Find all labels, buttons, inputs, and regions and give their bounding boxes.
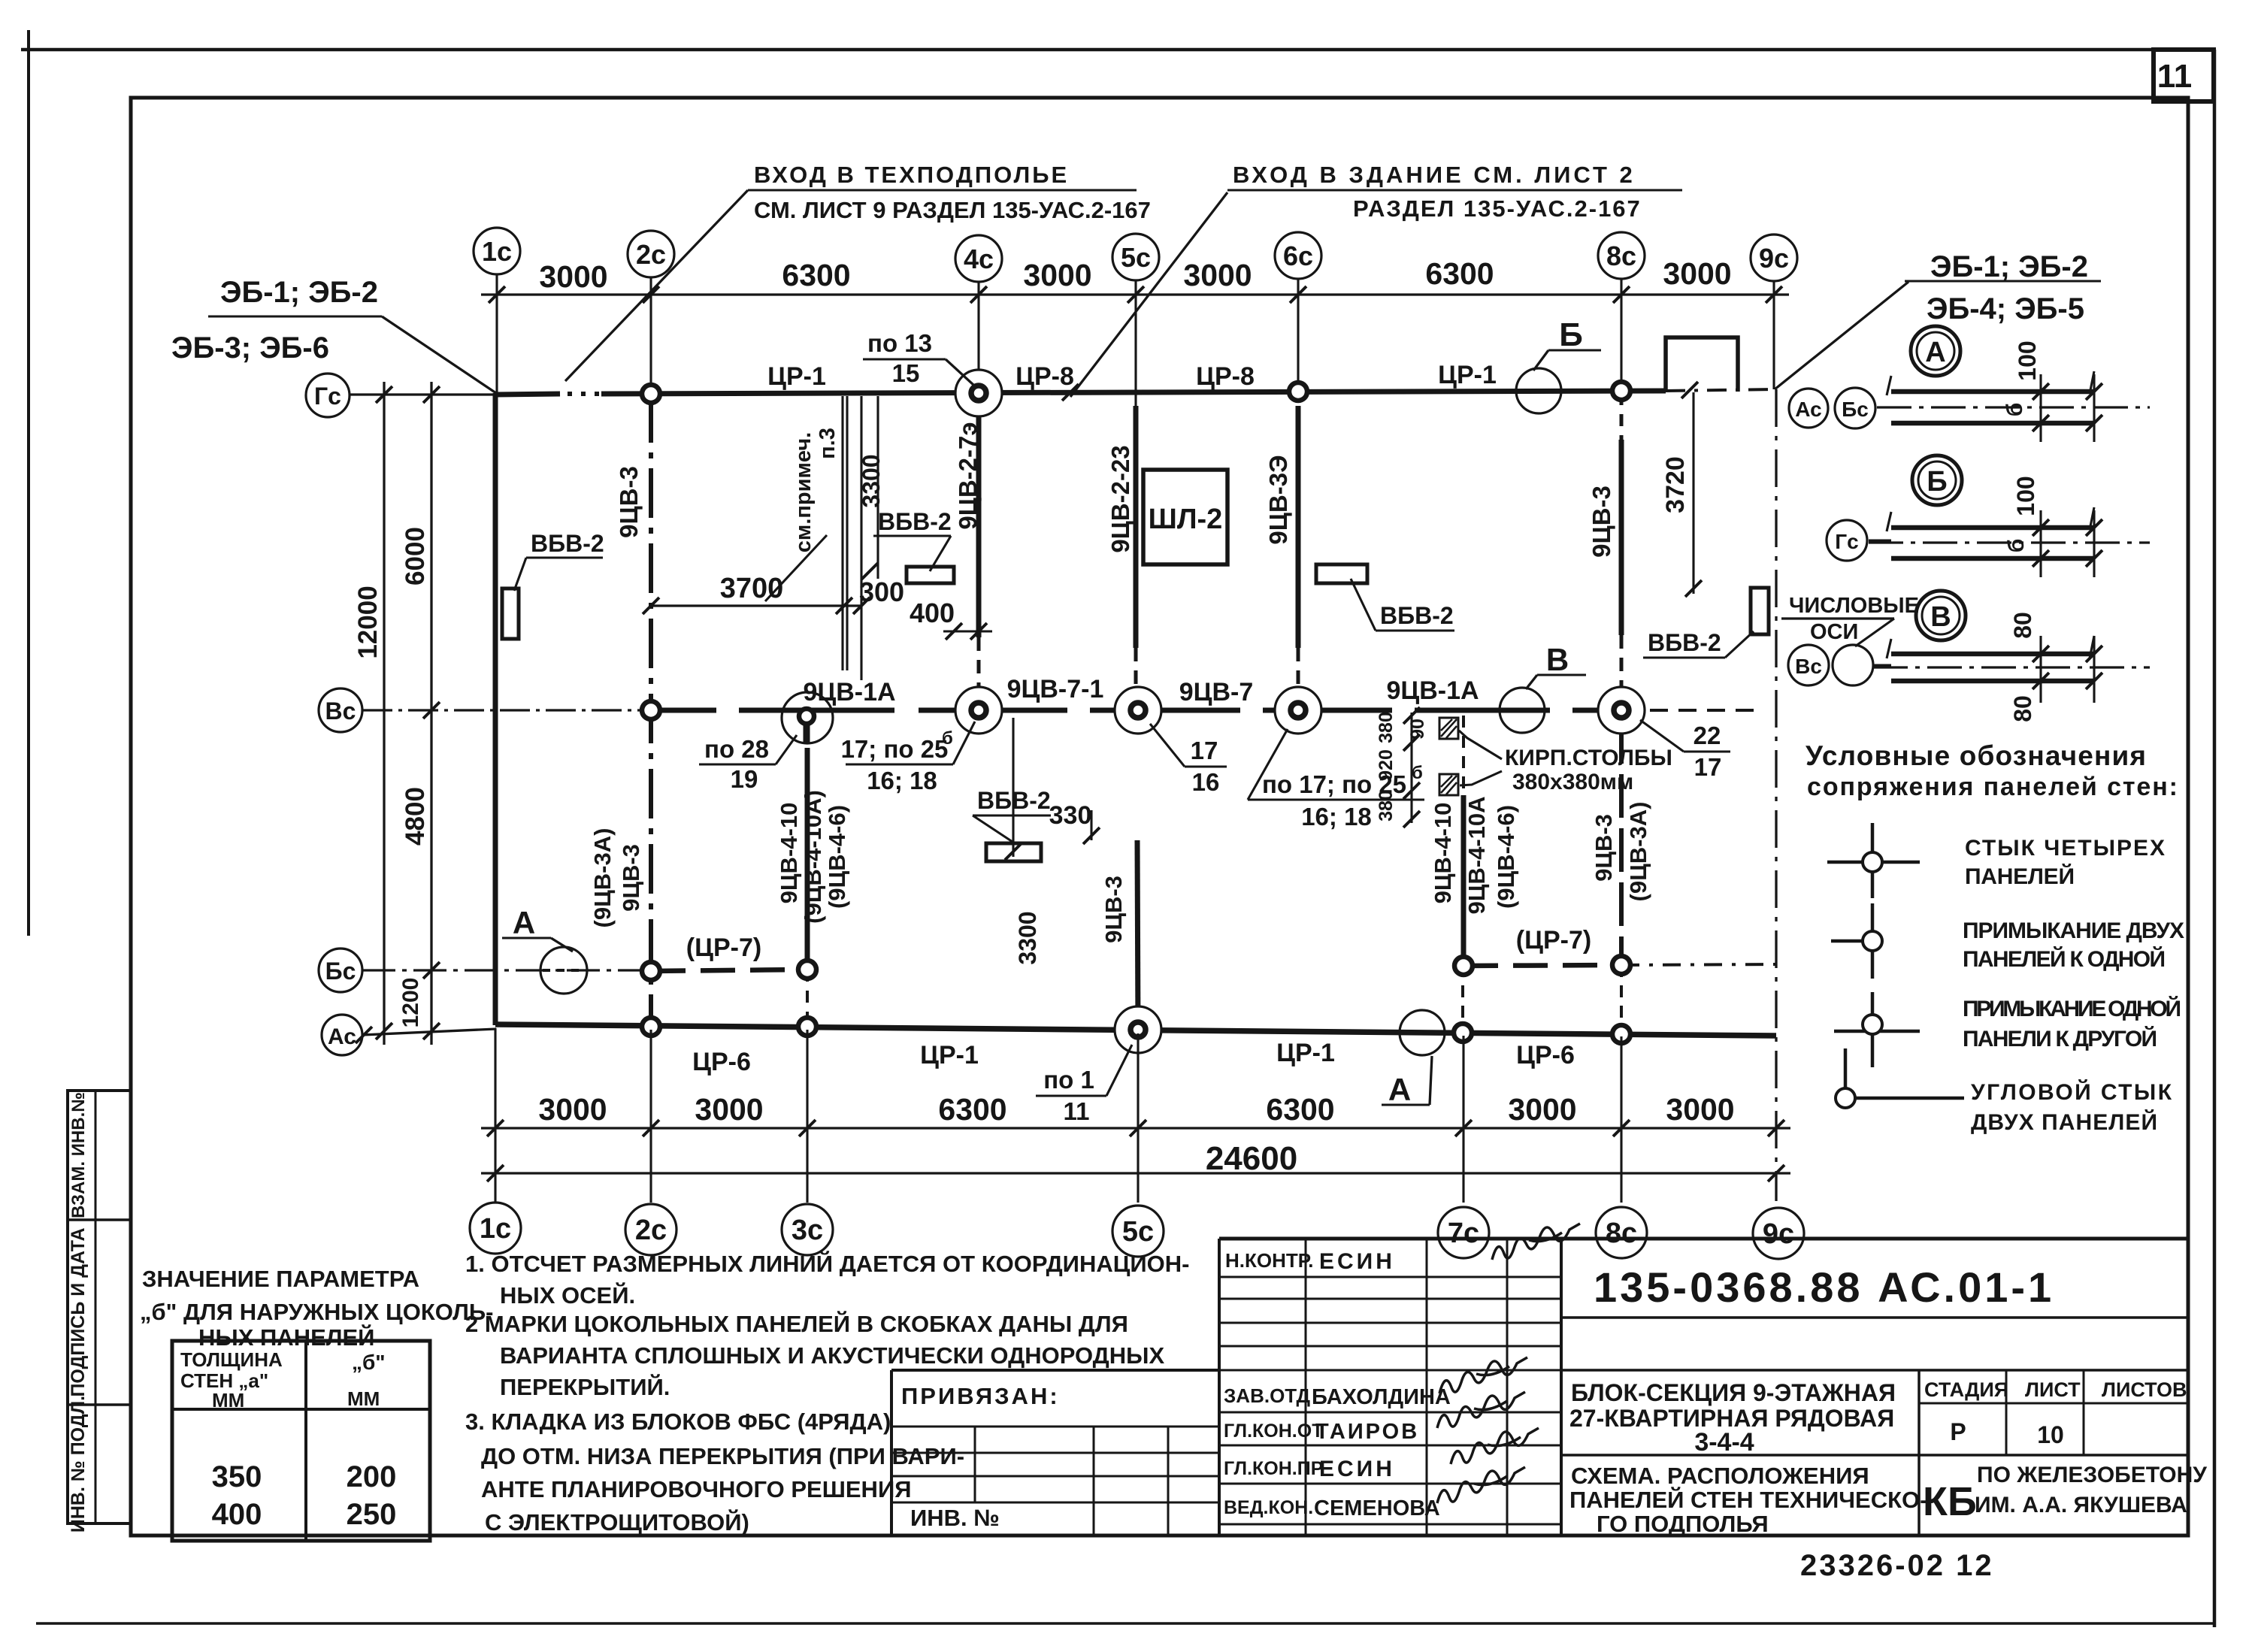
svg-text:3000: 3000	[1666, 1092, 1734, 1127]
svg-text:Бс: Бс	[325, 958, 356, 985]
ticks on left dims	[376, 386, 392, 403]
svg-text:9ЦВ-3: 9ЦВ-3	[618, 844, 644, 912]
node Ас-7с	[1454, 1024, 1472, 1042]
svg-text:6300: 6300	[938, 1092, 1006, 1127]
svg-text:5с: 5с	[1122, 1216, 1154, 1248]
svg-text:9ЦВ-4-10А: 9ЦВ-4-10А	[1463, 796, 1490, 914]
svg-text:ГЛ.КОН.ПР: ГЛ.КОН.ПР	[1224, 1458, 1323, 1479]
svg-text:3300: 3300	[1014, 911, 1041, 964]
leader см.примеч	[765, 535, 827, 601]
circle Вс of detail В	[1788, 645, 1829, 685]
svg-text:(ЦР-7): (ЦР-7)	[686, 933, 761, 962]
svg-text:8с: 8с	[1606, 241, 1636, 271]
svg-text:ЛИСТОВ: ЛИСТОВ	[2102, 1378, 2187, 1401]
svg-text:Бс: Бс	[1842, 398, 1869, 421]
svg-text:ЦР-1: ЦР-1	[1438, 361, 1497, 389]
node Гс-6с	[1289, 383, 1307, 401]
svg-text:6000: 6000	[401, 527, 430, 585]
axis 9с dash-dot	[1775, 389, 1777, 1201]
column axis circle 6с top	[1275, 232, 1321, 279]
axis leader Вс	[362, 709, 651, 711]
node Ас-8с	[1612, 1025, 1630, 1043]
svg-text:350: 350	[212, 1460, 262, 1493]
svg-text:БАХОЛДИНА: БАХОЛДИНА	[1312, 1385, 1451, 1409]
svg-text:ТАИРОВ: ТАИРОВ	[1315, 1420, 1419, 1444]
node Ас-2с	[642, 1018, 660, 1036]
legend symbol four panel joint	[1827, 861, 1920, 864]
svg-text:ВБВ-2: ВБВ-2	[1648, 629, 1721, 656]
svg-text:7с: 7с	[1448, 1218, 1479, 1249]
node Ас-3с	[798, 1018, 816, 1036]
svg-text:ЕСИН: ЕСИН	[1319, 1249, 1395, 1274]
sheet outer border top	[21, 48, 2214, 52]
entry porch bump on Гс	[1666, 337, 1738, 392]
svg-text:300: 300	[859, 576, 904, 607]
legend symbol two to one	[1831, 939, 1872, 943]
svg-text:200: 200	[347, 1460, 397, 1493]
node Бс-7с	[1454, 957, 1473, 975]
svg-text:23326-02 12: 23326-02 12	[1800, 1549, 1994, 1582]
svg-text:3с: 3с	[792, 1215, 823, 1246]
svg-text:СХЕМА. РАСПОЛОЖЕНИЯ: СХЕМА. РАСПОЛОЖЕНИЯ	[1571, 1463, 1869, 1489]
wall row Вс	[651, 708, 1621, 713]
svg-text:Гс: Гс	[314, 383, 341, 410]
svg-text:ВХОД В ЗДАНИЕ СМ. ЛИСТ 2: ВХОД В ЗДАНИЕ СМ. ЛИСТ 2	[1233, 162, 1636, 188]
svg-text:ВБВ-2: ВБВ-2	[531, 530, 604, 557]
svg-text:ЦР-6: ЦР-6	[1516, 1041, 1575, 1070]
svg-text:17: 17	[1694, 753, 1722, 781]
left stamp strip	[68, 1091, 131, 1523]
svg-text:ММ: ММ	[212, 1389, 244, 1411]
svg-text:9с: 9с	[1759, 243, 1789, 274]
sheet outer border bottom	[36, 1622, 2214, 1625]
svg-text:ЦР-1: ЦР-1	[767, 362, 826, 391]
brick column 380x380 lower	[1439, 774, 1458, 795]
svg-text:„б" ДЛЯ НАРУЖНЫХ ЦОКОЛЬ-: „б" ДЛЯ НАРУЖНЫХ ЦОКОЛЬ-	[140, 1299, 493, 1325]
svg-text:(9ЦВ-4-10А): (9ЦВ-4-10А)	[800, 790, 826, 924]
svg-text:9ЦВ-2-7э: 9ЦВ-2-7э	[954, 422, 982, 529]
column axis circle 7с bottom	[1438, 1207, 1489, 1258]
svg-text:3720: 3720	[1661, 456, 1690, 513]
wall column 8с lower	[1619, 720, 1624, 965]
svg-text:6300: 6300	[782, 258, 850, 292]
brick column 380x380 upper	[1439, 718, 1458, 739]
svg-text:90: 90	[1407, 719, 1428, 740]
panel ВБВ-2 rect right wall	[1751, 588, 1769, 634]
svg-text:ПРИМЫКАНИЕ ОДНОЙ: ПРИМЫКАНИЕ ОДНОЙ	[1963, 996, 2181, 1021]
column axis circle 5с bottom	[1112, 1206, 1164, 1257]
node Вс-4с (four panel joint)	[955, 687, 1002, 734]
svg-text:ЗНАЧЕНИЕ ПАРАМЕТРА: ЗНАЧЕНИЕ ПАРАМЕТРА	[142, 1266, 419, 1292]
svg-text:ЭБ-1; ЭБ-2: ЭБ-1; ЭБ-2	[1930, 250, 2088, 283]
svg-text:ЦР-1: ЦР-1	[1276, 1039, 1335, 1067]
svg-text:ИНВ. №: ИНВ. №	[910, 1505, 1000, 1531]
svg-text:2с: 2с	[635, 1215, 667, 1246]
junction symbol Вс-3с	[782, 692, 833, 743]
title block signature table	[1219, 1237, 2188, 1241]
wall column 1с	[493, 393, 498, 1025]
svg-text:250: 250	[347, 1498, 397, 1531]
svg-text:(9ЦВ-4-6): (9ЦВ-4-6)	[1493, 805, 1519, 909]
column axis circle 9с bottom	[1753, 1208, 1804, 1259]
brick column dim chain 380/920/380	[1410, 713, 1412, 823]
svg-text:СЕМЕНОВА: СЕМЕНОВА	[1314, 1496, 1440, 1520]
left dimension line 6000/4800/1200	[430, 382, 432, 1045]
svg-text:ПАНЕЛЕЙ К ОДНОЙ: ПАНЕЛЕЙ К ОДНОЙ	[1963, 946, 2166, 972]
wall column 8с upper	[1620, 393, 1624, 440]
section circle А on Бс	[540, 947, 587, 994]
top dimension line	[481, 293, 1789, 295]
document number 135-0368.88 АС.01-1	[1561, 1316, 2188, 1319]
svg-text:(9ЦВ-4-6): (9ЦВ-4-6)	[824, 805, 850, 909]
svg-text:ММ: ММ	[347, 1387, 380, 1410]
wall row Вс dash continuation to 9с	[1621, 709, 1759, 712]
svg-text:ЭБ-3; ЭБ-6: ЭБ-3; ЭБ-6	[171, 331, 329, 365]
svg-text:3000: 3000	[538, 1092, 607, 1127]
column axis circle 1с bottom	[470, 1203, 521, 1254]
svg-text:КИРП.СТОЛБЫ: КИРП.СТОЛБЫ	[1505, 746, 1672, 770]
svg-text:НЫХ ОСЕЙ.: НЫХ ОСЕЙ.	[500, 1281, 635, 1309]
svg-text:ИНВ. № ПОДЛ.: ИНВ. № ПОДЛ.	[68, 1396, 89, 1532]
svg-text:16; 18: 16; 18	[867, 767, 937, 794]
svg-text:сопряжения панелей стен:: сопряжения панелей стен:	[1807, 773, 2178, 801]
svg-text:330: 330	[1049, 801, 1092, 830]
svg-text:ВБВ-2: ВБВ-2	[878, 508, 952, 535]
svg-text:ДВУХ ПАНЕЛЕЙ: ДВУХ ПАНЕЛЕЙ	[1971, 1109, 2157, 1135]
sheet number box	[2154, 50, 2214, 101]
svg-text:9ЦВ-4-10: 9ЦВ-4-10	[1430, 803, 1456, 904]
svg-text:3000: 3000	[1663, 256, 1731, 291]
detail head Б	[1912, 455, 1962, 505]
svg-text:100: 100	[2012, 476, 2039, 516]
svg-text:Ас: Ас	[1795, 398, 1821, 421]
svg-text:по 1: по 1	[1043, 1066, 1094, 1094]
node Вс-2с	[642, 701, 660, 719]
wall row Бс (ЦР-7) right	[1463, 965, 1621, 966]
svg-text:КБ: КБ	[1923, 1479, 1977, 1524]
svg-text:3000: 3000	[1508, 1092, 1576, 1127]
row axis circle Бс	[319, 949, 362, 992]
section circle Б on Гс	[1516, 368, 1561, 413]
wall column 7с	[1461, 795, 1467, 965]
svg-text:6300: 6300	[1266, 1092, 1334, 1127]
axis Бс dash to 9с	[1621, 964, 1776, 965]
section circle В on Вс	[1500, 688, 1545, 733]
svg-text:СТАДИЯ: СТАДИЯ	[1924, 1378, 2008, 1401]
svg-text:3. КЛАДКА ИЗ БЛОКОВ ФБС (4РЯ: 3. КЛАДКА ИЗ БЛОКОВ ФБС (4РЯДА)	[465, 1408, 891, 1435]
svg-text:3700: 3700	[720, 573, 784, 604]
привязан box	[891, 1369, 1219, 1372]
column axis circle 2с bottom	[625, 1204, 676, 1255]
vertical dim 3720 at 9с	[1692, 392, 1694, 594]
svg-text:Б: Б	[1927, 466, 1947, 498]
panel ВБВ-2 rect mid bottom	[986, 843, 1041, 861]
bottom axis stems	[494, 1028, 496, 1203]
svg-text:УГЛОВОЙ СТЫК: УГЛОВОЙ СТЫК	[1971, 1079, 2172, 1105]
svg-text:Гс: Гс	[1835, 530, 1858, 553]
axis leader Бс	[362, 969, 651, 971]
node Гс-2с	[642, 385, 660, 403]
svg-text:РАЗДЕЛ 135-УАС.2-167: РАЗДЕЛ 135-УАС.2-167	[1353, 195, 1642, 222]
svg-text:9ЦВ-3Э: 9ЦВ-3Э	[1264, 455, 1292, 544]
svg-text:9ЦВ-3: 9ЦВ-3	[1591, 814, 1617, 882]
svg-text:ПОДПИСЬ И ДАТА: ПОДПИСЬ И ДАТА	[68, 1227, 89, 1396]
svg-text:ЛИСТ: ЛИСТ	[2025, 1378, 2081, 1401]
left dimension line 12000	[383, 382, 385, 1045]
row axis circle Вс	[319, 688, 362, 732]
svg-text:по 28: по 28	[704, 735, 769, 763]
leader from corner 9с	[1775, 282, 1908, 389]
svg-text:2с: 2с	[636, 239, 666, 270]
svg-text:АНТЕ ПЛАНИРОВОЧНОГО РЕШЕНИЯ: АНТЕ ПЛАНИРОВОЧНОГО РЕШЕНИЯ	[481, 1476, 912, 1502]
wall column 5с upper	[1134, 406, 1139, 648]
svg-text:3000: 3000	[695, 1092, 763, 1127]
svg-text:19: 19	[731, 765, 758, 793]
svg-text:ЕСИН: ЕСИН	[1319, 1457, 1395, 1481]
svg-text:ГО ПОДПОЛЬЯ: ГО ПОДПОЛЬЯ	[1597, 1511, 1769, 1537]
legend symbol one to another	[1834, 1030, 1920, 1033]
svg-text:Б: Б	[1559, 316, 1583, 353]
svg-text:9ЦВ-1А: 9ЦВ-1А	[1386, 676, 1479, 705]
svg-text:9ЦВ-3: 9ЦВ-3	[1100, 876, 1127, 943]
svg-text:С ЭЛЕКТРОЩИТОВОЙ): С ЭЛЕКТРОЩИТОВОЙ)	[485, 1508, 749, 1536]
node Бс-2с	[642, 962, 660, 980]
svg-text:(9ЦВ-3А): (9ЦВ-3А)	[589, 828, 616, 928]
svg-text:б: б	[2004, 539, 2029, 553]
wall column 2с	[649, 393, 653, 1027]
svg-text:ЭБ-1; ЭБ-2: ЭБ-1; ЭБ-2	[220, 276, 378, 309]
svg-text:380: 380	[1376, 790, 1397, 821]
svg-text:Р: Р	[1950, 1418, 1966, 1445]
svg-text:400: 400	[212, 1498, 262, 1531]
svg-text:9ЦВ-1А: 9ЦВ-1А	[803, 678, 895, 706]
svg-text:п.3: п.3	[816, 428, 840, 459]
parameter table	[172, 1341, 430, 1541]
svg-text:3000: 3000	[1183, 258, 1252, 292]
svg-text:10: 10	[2037, 1421, 2064, 1448]
circles Ас Бс of detail А	[1789, 389, 1828, 428]
svg-text:см.примеч.: см.примеч.	[792, 432, 816, 552]
svg-text:б: б	[2002, 403, 2027, 417]
wall row Ас	[495, 1024, 1776, 1036]
svg-text:380х380мм: 380х380мм	[1512, 770, 1633, 794]
column axis circle 8с bottom	[1596, 1207, 1647, 1258]
leader to wall 1с-2с	[565, 190, 748, 381]
detail head В	[1916, 591, 1966, 640]
svg-text:ИМ. А.А. ЯКУШЕВА: ИМ. А.А. ЯКУШЕВА	[1975, 1493, 2187, 1517]
column axis circle 4с top	[955, 235, 1002, 282]
svg-text:80: 80	[2009, 695, 2036, 722]
thin wall edge lines near 4с	[841, 396, 843, 670]
circle Гс of detail Б	[1827, 520, 1867, 561]
svg-text:ВАРИАНТА СПЛОШНЫХ И АКУСТИЧ: ВАРИАНТА СПЛОШНЫХ И АКУСТИЧЕСКИ ОДНОРОДН…	[500, 1342, 1164, 1369]
svg-text:ВБВ-2: ВБВ-2	[1380, 602, 1454, 629]
wall column 4с	[976, 406, 982, 637]
svg-text:1с: 1с	[482, 236, 512, 267]
bottom dimension line 1	[481, 1127, 1790, 1129]
svg-text:(9ЦВ-3А): (9ЦВ-3А)	[1625, 802, 1651, 902]
svg-text:16: 16	[1192, 768, 1220, 796]
svg-text:ГЛ.КОН.ОТ: ГЛ.КОН.ОТ	[1224, 1421, 1323, 1442]
wall column 6с	[1296, 406, 1301, 648]
svg-text:ПО ЖЕЛЕЗОБЕТОНУ: ПО ЖЕЛЕЗОБЕТОНУ	[1977, 1463, 2207, 1487]
rotated dim 3300 at 5с	[1012, 718, 1014, 857]
svg-text:11: 11	[2157, 58, 2193, 95]
svg-text:ВЕД.КОН.: ВЕД.КОН.	[1224, 1497, 1313, 1518]
svg-text:СТЫК ЧЕТЫРЕХ: СТЫК ЧЕТЫРЕХ	[1965, 836, 2165, 861]
svg-text:ЧИСЛОВЫЕ: ЧИСЛОВЫЕ	[1789, 594, 1919, 618]
svg-text:ЦР-8: ЦР-8	[1016, 362, 1074, 391]
svg-text:ЭБ-4; ЭБ-5: ЭБ-4; ЭБ-5	[1927, 292, 2084, 325]
svg-text:12000: 12000	[353, 585, 383, 658]
panel ВБВ-2 rect left wall	[502, 588, 519, 639]
svg-text:ПРИВЯЗАН:: ПРИВЯЗАН:	[901, 1383, 1060, 1409]
svg-text:СМ. ЛИСТ 9 РАЗДЕЛ 135-УАС.2-: СМ. ЛИСТ 9 РАЗДЕЛ 135-УАС.2-167	[754, 197, 1151, 223]
svg-text:(ЦР-7): (ЦР-7)	[1516, 926, 1591, 955]
node Бс-3с	[798, 961, 816, 979]
node Вс-5с (four panel joint)	[1115, 687, 1161, 734]
svg-text:135-0368.88 АС.01-1: 135-0368.88 АС.01-1	[1594, 1263, 2054, 1311]
svg-text:Н.КОНТР.: Н.КОНТР.	[1225, 1249, 1313, 1272]
svg-text:9ЦВ-2-23: 9ЦВ-2-23	[1106, 445, 1134, 552]
svg-text:920: 920	[1376, 749, 1397, 781]
svg-text:6с: 6с	[1283, 241, 1313, 271]
svg-text:В: В	[1546, 642, 1569, 677]
node Вс-8с (four panel joint)	[1598, 687, 1645, 734]
svg-text:9с: 9с	[1763, 1218, 1794, 1250]
svg-text:б: б	[1412, 763, 1423, 783]
svg-text:НЫХ ПАНЕЛЕЙ: НЫХ ПАНЕЛЕЙ	[198, 1324, 374, 1351]
svg-text:8с: 8с	[1606, 1218, 1637, 1249]
numeric axis circle of detail В	[1833, 645, 1873, 685]
detail А panel lines	[1891, 389, 2094, 395]
node Гс-8с	[1612, 382, 1630, 400]
svg-text:1200: 1200	[398, 978, 423, 1028]
svg-text:ПАНЕЛЕЙ СТЕН ТЕХНИЧЕСКО-: ПАНЕЛЕЙ СТЕН ТЕХНИЧЕСКО-	[1569, 1486, 1927, 1513]
svg-text:9ЦВ-4-10: 9ЦВ-4-10	[776, 803, 802, 904]
svg-text:4с: 4с	[964, 244, 994, 274]
inner drawing frame	[131, 98, 2188, 1536]
svg-text:16; 18: 16; 18	[1301, 803, 1372, 831]
axis stems top	[495, 274, 498, 395]
svg-text:1. ОТСЧЕТ РАЗМЕРНЫХ ЛИНИЙ ДА: 1. ОТСЧЕТ РАЗМЕРНЫХ ЛИНИЙ ДАЕТСЯ ОТ КООР…	[465, 1250, 1189, 1277]
axis leader Ас	[362, 1029, 496, 1035]
row axis circle Ас	[322, 1015, 362, 1055]
node Вс-6с (four panel joint)	[1275, 687, 1321, 734]
row axis circle Гс	[306, 374, 350, 417]
svg-text:ВХОД В ТЕХПОДПОЛЬЕ: ВХОД В ТЕХПОДПОЛЬЕ	[754, 162, 1069, 188]
svg-text:11: 11	[1064, 1097, 1090, 1125]
svg-text:3-4-4: 3-4-4	[1694, 1428, 1754, 1457]
svg-text:по 13: по 13	[867, 329, 932, 357]
svg-text:А: А	[513, 905, 535, 940]
svg-text:1с: 1с	[480, 1213, 511, 1245]
svg-text:ВЗАМ. ИНВ.№: ВЗАМ. ИНВ.№	[68, 1092, 89, 1218]
svg-text:ПРИМЫКАНИЕ ДВУХ: ПРИМЫКАНИЕ ДВУХ	[1963, 918, 2184, 943]
svg-text:9ЦВ-3: 9ЦВ-3	[615, 466, 643, 538]
svg-text:ПЕРЕКРЫТИЙ.: ПЕРЕКРЫТИЙ.	[500, 1373, 670, 1400]
svg-text:ЦР-6: ЦР-6	[692, 1048, 751, 1076]
svg-text:9ЦВ-7: 9ЦВ-7	[1179, 678, 1254, 706]
svg-text:15: 15	[892, 359, 920, 387]
detail head А	[1911, 326, 1960, 376]
svg-text:Условные обозначения: Условные обозначения	[1806, 740, 2146, 771]
svg-text:ПАНЕЛЕЙ: ПАНЕЛЕЙ	[1965, 864, 2075, 889]
svg-text:А: А	[1925, 337, 1945, 368]
sheet outer border right	[2213, 50, 2217, 1627]
svg-text:ТОЛЩИНА: ТОЛЩИНА	[180, 1348, 283, 1371]
svg-text:2 МАРКИ ЦОКОЛЬНЫХ ПАНЕЛЕЙ В: 2 МАРКИ ЦОКОЛЬНЫХ ПАНЕЛЕЙ В СКОБКАХ ДАНЫ…	[465, 1310, 1128, 1337]
svg-text:Вс: Вс	[325, 697, 356, 725]
axis leader Гс	[350, 393, 497, 395]
svg-text:100: 100	[2014, 340, 2041, 380]
column axis circle 3с bottom	[782, 1204, 833, 1255]
tick on Гс at 5с	[1062, 384, 1079, 401]
svg-text:9ЦВ-7-1: 9ЦВ-7-1	[1007, 675, 1104, 703]
section circle А on Ас	[1400, 1010, 1445, 1055]
electrical room box ШЛ-2	[1143, 470, 1227, 564]
detail Б panel lines	[1891, 525, 2094, 531]
node Гс-4с (four panel joint)	[955, 370, 1002, 416]
column axis circle 8с top	[1598, 232, 1645, 279]
column axis circle 1с top	[474, 228, 520, 274]
title area separators	[1561, 1369, 2188, 1372]
svg-text:ЗАВ.ОТД: ЗАВ.ОТД	[1224, 1384, 1311, 1407]
detail В panel lines	[1891, 652, 2094, 657]
wall column 3с	[805, 748, 810, 970]
svg-text:80: 80	[2009, 612, 2036, 639]
bottom dimension line 2 (24600)	[481, 1172, 1790, 1174]
svg-text:ПАНЕЛИ К ДРУГОЙ: ПАНЕЛИ К ДРУГОЙ	[1963, 1026, 2157, 1051]
sheet outer border left	[27, 30, 30, 936]
svg-text:б: б	[942, 728, 953, 749]
leader to wall 4с-5с	[1070, 192, 1227, 397]
svg-text:22: 22	[1694, 722, 1721, 749]
svg-text:ЦР-8: ЦР-8	[1196, 362, 1255, 391]
panel ВБВ-2 rect mid top	[907, 567, 954, 583]
svg-text:17: 17	[1191, 737, 1218, 764]
column axis circle 9с top	[1751, 234, 1797, 281]
node Бс-8с	[1612, 956, 1630, 974]
svg-text:24600: 24600	[1206, 1140, 1297, 1177]
wall row Гс	[495, 394, 560, 395]
svg-text:ШЛ-2: ШЛ-2	[1149, 504, 1223, 535]
column axis circle 5с top	[1112, 234, 1159, 280]
node Ас-5с (four panel joint)	[1115, 1006, 1161, 1053]
svg-text:3000: 3000	[539, 259, 607, 294]
svg-text:БЛОК-СЕКЦИЯ 9-ЭТАЖНАЯ: БЛОК-СЕКЦИЯ 9-ЭТАЖНАЯ	[1571, 1379, 1896, 1406]
svg-text:Вс: Вс	[1795, 655, 1822, 678]
svg-text:ЦР-1: ЦР-1	[920, 1041, 979, 1070]
svg-text:9ЦВ-3: 9ЦВ-3	[1588, 486, 1615, 558]
svg-text:Ас: Ас	[328, 1024, 356, 1049]
svg-text:В: В	[1930, 601, 1951, 633]
legend symbol corner joint	[1845, 1097, 1964, 1100]
svg-text:„б": „б"	[352, 1351, 386, 1374]
svg-text:6300: 6300	[1425, 256, 1494, 291]
svg-text:ОСИ: ОСИ	[1810, 620, 1858, 644]
svg-text:380: 380	[1376, 712, 1397, 743]
svg-text:400: 400	[910, 598, 955, 628]
panel ВБВ-2 rect near ШЛ	[1316, 564, 1367, 583]
svg-text:А: А	[1388, 1072, 1411, 1107]
svg-text:17; по 25: 17; по 25	[841, 735, 949, 763]
wall row Бс (ЦР-7) left	[651, 970, 807, 971]
wall column 5с lower	[1137, 840, 1138, 1030]
svg-text:5с: 5с	[1121, 242, 1151, 273]
leader to corner 1с	[382, 316, 496, 393]
column axis circle 2с top	[628, 231, 674, 277]
